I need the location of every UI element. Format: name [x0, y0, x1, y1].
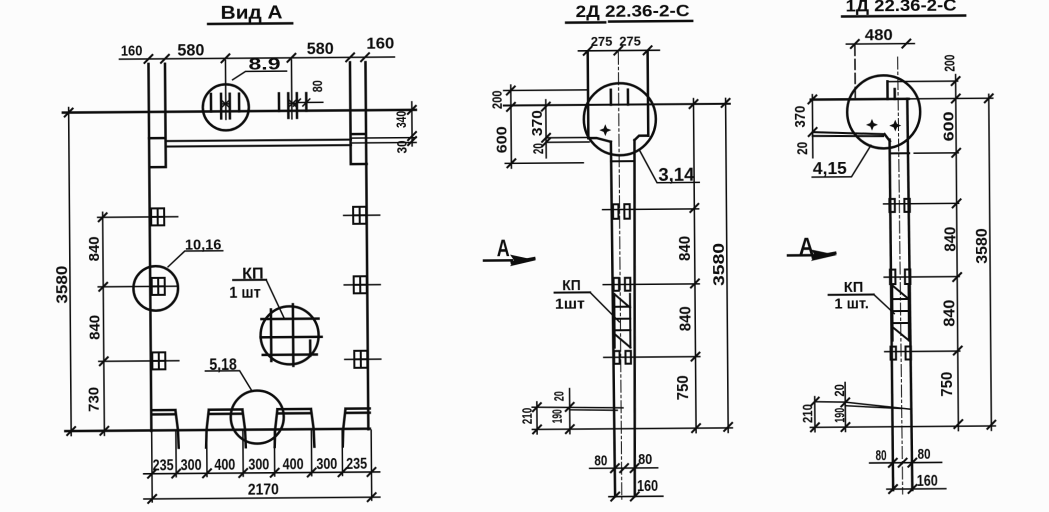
- svg-text:400: 400: [283, 456, 304, 473]
- svg-text:2170: 2170: [248, 481, 279, 498]
- top edge anchor loops group 2: [279, 93, 306, 118]
- svg-text:3580: 3580: [54, 265, 71, 303]
- head top edge line: [811, 98, 909, 101]
- base level line (right view): [810, 426, 995, 427]
- embed extension lines right: [344, 215, 381, 359]
- svg-text:20: 20: [551, 391, 567, 401]
- column head top line: [504, 104, 730, 106]
- bottom chain 2170: [144, 481, 380, 503]
- svg-text:5,18: 5,18: [209, 356, 237, 374]
- corbel underside double lines: [813, 132, 885, 137]
- mini dim 80 at loops group 2: [293, 80, 325, 106]
- shaft embeds row 3 (right view): [891, 346, 912, 359]
- panel top edge: [63, 110, 416, 113]
- svg-text:20: 20: [795, 142, 811, 155]
- inner left chain 840/840/730: [84, 212, 108, 435]
- bottom wedge notch lines (right view): [815, 401, 911, 410]
- svg-text:160: 160: [121, 43, 143, 60]
- dim 160 (middle bottom): [609, 478, 663, 501]
- KP hatched circle: [229, 265, 322, 366]
- svg-text:600: 600: [494, 126, 510, 153]
- extension line 600 bottom: [505, 162, 583, 165]
- head shoulder lines 370/20: [546, 137, 589, 142]
- svg-text:80: 80: [918, 446, 931, 463]
- dim 80/80 (right view): [870, 446, 942, 467]
- svg-text:580: 580: [307, 39, 334, 58]
- svg-text:80: 80: [638, 451, 652, 468]
- column axis (right view): [898, 57, 903, 494]
- bottom outer chain 210: [519, 402, 541, 434]
- svg-text:840: 840: [86, 236, 103, 261]
- svg-text:300: 300: [181, 457, 202, 474]
- embed extension lines (right view): [884, 203, 960, 351]
- svg-text:750: 750: [939, 372, 956, 397]
- svg-text:840: 840: [677, 306, 694, 331]
- right inner chain 840/840/750: [673, 99, 700, 433]
- svg-text:340: 340: [393, 111, 409, 128]
- svg-text:20: 20: [831, 384, 847, 397]
- column axis center line: [618, 52, 622, 499]
- bottom foot notch 3: [274, 409, 314, 447]
- KP ladder hatch on shaft: [614, 294, 630, 348]
- bottom outer chain 210 (right view): [799, 397, 819, 432]
- extension line lug tops: [504, 89, 587, 92]
- svg-text:840: 840: [677, 236, 694, 261]
- joint line across shaft: [611, 160, 634, 162]
- dim 160 (right view): [887, 473, 946, 493]
- bottom inner chain 20/190 (right view): [831, 382, 849, 431]
- svg-text:3580: 3580: [974, 228, 991, 264]
- svg-text:1 шт.: 1 шт.: [834, 296, 869, 312]
- dim 340 and 30 (right side): [393, 102, 416, 154]
- title 1Д 22.36-2-С: [842, 0, 965, 16]
- svg-text:20: 20: [531, 143, 547, 154]
- svg-text:1шт: 1шт: [555, 297, 585, 313]
- left edge embed plates (2x2 squares): [151, 208, 165, 369]
- svg-text:275: 275: [591, 34, 613, 49]
- column head edges: [588, 52, 649, 138]
- top right strip (column): [350, 62, 367, 164]
- detail circle 5.18: [205, 355, 284, 444]
- svg-text:235: 235: [346, 456, 367, 473]
- bottom inner chain 20/190: [549, 389, 574, 434]
- extension 600 bottom to chain: [914, 152, 958, 154]
- ledge extension to right for dims 340/30: [351, 138, 416, 143]
- shaft embeds row 2 (right view): [890, 269, 911, 284]
- detail circle 4.15: [811, 75, 920, 178]
- svg-text:580: 580: [177, 41, 204, 60]
- svg-text:80: 80: [594, 452, 607, 469]
- right outer chain 3580 (right view): [973, 94, 996, 430]
- head chamfers to shaft: [588, 136, 648, 142]
- extension line lug top to chain: [889, 80, 958, 83]
- svg-text:370: 370: [530, 110, 546, 136]
- svg-text:А: А: [497, 235, 510, 262]
- dim 480: [846, 27, 914, 48]
- svg-text:200: 200: [489, 90, 505, 109]
- svg-text:80: 80: [876, 447, 887, 464]
- fixing point star: [599, 124, 611, 136]
- svg-text:Вид А: Вид А: [221, 2, 283, 22]
- shaft embeds row 1 (right view): [889, 199, 910, 212]
- embed extension lines left: [98, 217, 179, 362]
- ledge double lines: [166, 140, 352, 147]
- svg-text:840: 840: [941, 299, 958, 326]
- panel outline: left edge: [148, 64, 151, 431]
- right outer chain 3580 (middle): [710, 98, 732, 432]
- shaft embeds row 2: [614, 278, 631, 291]
- svg-text:730: 730: [86, 387, 103, 412]
- svg-text:200: 200: [941, 55, 958, 72]
- bottom foot notch 4: [342, 409, 369, 447]
- dim 80/80 (middle bottom): [590, 451, 658, 472]
- bottom wedge notch lines: [532, 407, 623, 411]
- svg-text:10,16: 10,16: [185, 236, 222, 253]
- svg-text:300: 300: [248, 457, 269, 474]
- head anchor lugs: [611, 90, 628, 105]
- view arrow A (middle): [484, 235, 536, 267]
- bottom foot notch 2: [206, 409, 246, 447]
- svg-text:400: 400: [214, 457, 235, 474]
- svg-text:210: 210: [799, 404, 815, 423]
- extension line 480 left: [854, 45, 856, 99]
- svg-text:3,14: 3,14: [658, 165, 694, 185]
- right edge embed plates (2x2 squares): [353, 207, 367, 368]
- svg-text:235: 235: [153, 457, 174, 474]
- top left strip (column): [148, 64, 165, 167]
- svg-text:3580: 3580: [711, 243, 728, 286]
- detail circle 3.14: [584, 83, 700, 186]
- left inner chain 370/20: [530, 100, 550, 158]
- svg-text:600: 600: [940, 111, 957, 141]
- title Вид А: [208, 2, 292, 24]
- bottom foot notch 1 (ceiling + slant): [152, 410, 179, 448]
- svg-text:840: 840: [86, 315, 103, 340]
- svg-text:2Д 22.36-2-С: 2Д 22.36-2-С: [576, 2, 690, 21]
- svg-text:840: 840: [942, 226, 959, 251]
- panel bottom edge: [65, 429, 369, 431]
- svg-text:8.9: 8.9: [248, 54, 280, 73]
- svg-text:1 шт: 1 шт: [229, 285, 261, 302]
- bottom chain 235/300/400/300/400/300/235: [144, 456, 380, 478]
- head top extension to right chains: [909, 97, 993, 100]
- head anchor lugs (right view): [887, 81, 894, 99]
- svg-text:750: 750: [675, 375, 692, 400]
- left chain 370/20 (right view): [793, 95, 817, 158]
- svg-text:160: 160: [637, 478, 658, 495]
- svg-text:80: 80: [310, 80, 325, 92]
- bottom extension lines: [152, 430, 372, 502]
- left outer chain 200/600: [489, 85, 516, 168]
- svg-text:210: 210: [519, 408, 535, 425]
- joint line across shaft (right view): [890, 152, 909, 154]
- KP label (middle view): [554, 278, 619, 323]
- svg-text:160: 160: [366, 36, 394, 53]
- shaft left edge: [890, 140, 894, 490]
- embed extension lines to right chain: [603, 209, 700, 358]
- view arrow A (right): [788, 233, 837, 261]
- svg-text:4,15: 4,15: [813, 158, 847, 178]
- svg-text:300: 300: [316, 456, 337, 473]
- detail circle 8.9: [202, 54, 287, 130]
- KP ladder hatch (right view): [892, 285, 909, 340]
- shaft edges: [611, 140, 637, 496]
- svg-text:190: 190: [831, 408, 847, 423]
- corbel beak to shaft: [885, 134, 890, 141]
- svg-text:370: 370: [793, 106, 809, 128]
- svg-text:480: 480: [865, 27, 893, 44]
- top dimension line 160/580/580/160: [119, 36, 394, 63]
- shaft right edge (head right edge): [907, 99, 912, 490]
- base level line: [532, 428, 732, 430]
- svg-text:160: 160: [917, 473, 938, 490]
- shaft embeds row 3: [614, 351, 631, 364]
- fixing stars (right view): [866, 119, 878, 131]
- KP label (right view): [828, 280, 894, 315]
- panel outline: right edge: [365, 62, 368, 429]
- outer left chain 3580: [53, 108, 75, 436]
- svg-text:1Д 22.36-2-С: 1Д 22.36-2-С: [845, 0, 956, 15]
- detail circle 10.16: [133, 236, 223, 311]
- svg-text:30: 30: [394, 140, 410, 153]
- top edge anchor loops group 1: [211, 94, 239, 119]
- svg-text:190: 190: [549, 409, 565, 423]
- shaft embeds row 1: [613, 204, 630, 219]
- svg-text:275: 275: [619, 34, 641, 49]
- title 2Д 22.36-2-С: [566, 2, 692, 22]
- right inner chain 200/600/840/840/750: [936, 55, 962, 431]
- extension lines of top dim ticks: [225, 60, 291, 120]
- dim 275/275: [578, 33, 659, 54]
